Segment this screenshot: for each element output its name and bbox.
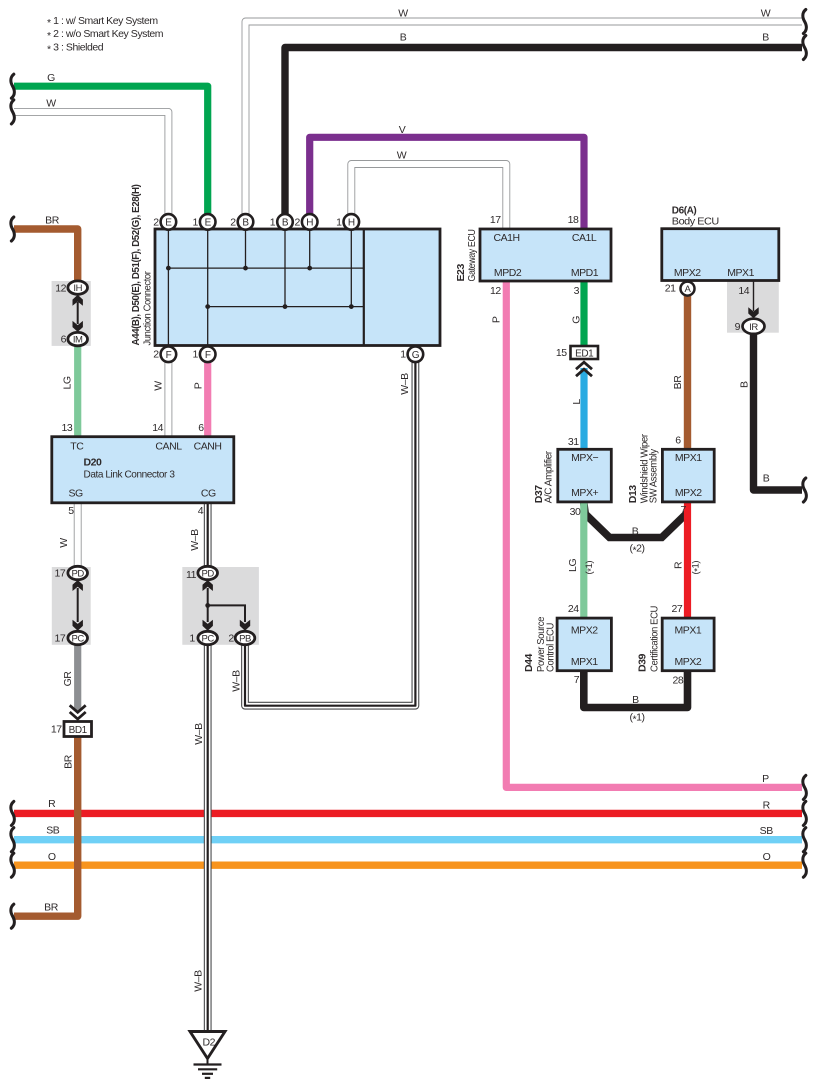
svg-text:2: 2 xyxy=(153,216,159,228)
svg-text:11: 11 xyxy=(186,569,197,581)
svg-text:B: B xyxy=(282,218,289,229)
wire W left edge to junction 2E xyxy=(14,112,168,222)
connector IR xyxy=(743,319,765,334)
svg-text:12: 12 xyxy=(490,285,501,297)
svg-text:W–B: W–B xyxy=(189,529,201,551)
svg-text:H: H xyxy=(306,218,313,229)
svg-text:1: 1 xyxy=(193,216,199,228)
svg-text:W–B: W–B xyxy=(231,670,243,692)
svg-text:TC: TC xyxy=(70,440,84,452)
wire W E23 CA1H to junction 1H xyxy=(351,164,506,229)
D39 Certification ECU box xyxy=(662,618,714,671)
squiggle left BR bottom xyxy=(11,904,14,928)
squiggle right O xyxy=(803,853,806,877)
connector PC left xyxy=(68,631,88,644)
svg-text:MPX2: MPX2 xyxy=(675,656,702,668)
svg-text:(*2): (*2) xyxy=(629,542,644,556)
connector PD left xyxy=(68,566,88,579)
pin circle 2H xyxy=(302,214,318,230)
wire R main horizontal xyxy=(14,810,802,817)
D6 pin 21 circle A xyxy=(681,282,695,296)
svg-text:B: B xyxy=(632,525,639,537)
svg-text:1: 1 xyxy=(193,349,199,361)
connector shade D6 pin14/IR xyxy=(727,281,779,333)
squiggle left SB xyxy=(11,828,14,852)
svg-text:17: 17 xyxy=(490,214,501,226)
svg-text:ED1: ED1 xyxy=(575,348,594,359)
svg-text:14: 14 xyxy=(738,285,749,297)
shield chevrons above BD1 xyxy=(70,705,86,719)
svg-text:6: 6 xyxy=(675,435,681,447)
squiggle right P xyxy=(803,775,806,799)
connector IM xyxy=(68,332,88,345)
svg-text:Certification ECU: Certification ECU xyxy=(649,606,661,672)
svg-text:4: 4 xyxy=(198,505,204,517)
svg-text:W: W xyxy=(397,150,407,162)
svg-text:D20: D20 xyxy=(84,456,103,468)
wire P from E23 MPD2 to right edge xyxy=(506,281,802,787)
squiggle left W xyxy=(11,100,14,124)
svg-text:R: R xyxy=(763,800,771,812)
svg-text:PD: PD xyxy=(72,569,85,580)
D13 Windshield Wiper SW Assembly box xyxy=(662,449,714,502)
wire LG IM to D20 TC xyxy=(74,339,81,438)
pin circle 2B xyxy=(238,214,254,230)
svg-text:H: H xyxy=(348,218,355,229)
wire W D20 SG to PD xyxy=(74,502,82,573)
svg-text:SW Assembly: SW Assembly xyxy=(648,448,660,503)
svg-text:V: V xyxy=(399,124,406,136)
wire GR PC to BD1 xyxy=(74,638,81,711)
D6(A) Body ECU box xyxy=(662,229,779,281)
svg-text:13: 13 xyxy=(62,422,73,434)
BD1 connector box xyxy=(64,722,92,737)
svg-text:MPX2: MPX2 xyxy=(674,267,701,279)
wire B top to junction 1B xyxy=(285,48,802,223)
svg-text:31: 31 xyxy=(568,436,579,448)
svg-text:MPX1: MPX1 xyxy=(571,656,598,668)
svg-text:* 1 : w/ Smart Key System: * 1 : w/ Smart Key System xyxy=(47,15,158,29)
svg-text:G: G xyxy=(412,350,420,361)
svg-text:W–B: W–B xyxy=(192,970,204,992)
svg-text:W: W xyxy=(761,8,771,20)
svg-text:B: B xyxy=(763,473,770,485)
svg-text:MPX2: MPX2 xyxy=(675,487,702,499)
wire O main horizontal xyxy=(14,862,802,869)
pin circle 1E xyxy=(200,214,216,230)
svg-text:W: W xyxy=(58,538,70,548)
connector pair shade IH/IM xyxy=(52,281,91,346)
svg-text:LG: LG xyxy=(62,376,74,389)
svg-text:LG: LG xyxy=(567,559,579,572)
D44 Power Source Control ECU box xyxy=(557,618,611,671)
svg-text:SB: SB xyxy=(46,824,60,836)
svg-text:CA1L: CA1L xyxy=(572,232,597,244)
D37 A/C Amplifier box xyxy=(558,449,612,502)
svg-text:PD: PD xyxy=(202,569,215,580)
svg-text:BR: BR xyxy=(44,901,59,913)
svg-text:28: 28 xyxy=(673,675,684,687)
ED1 connector box xyxy=(571,346,599,359)
squiggle right W xyxy=(803,10,806,34)
wire P junction 1F to D20 CANH xyxy=(204,354,211,438)
pin circle 1F xyxy=(200,347,216,363)
svg-text:Junction Connector: Junction Connector xyxy=(141,271,153,346)
svg-text:7: 7 xyxy=(681,504,687,516)
svg-text:(*1): (*1) xyxy=(629,712,644,726)
wire B black D37-30 to D13-7 xyxy=(584,503,686,538)
E23 Gateway ECU box xyxy=(480,229,611,281)
wire BR D6-21A to D13 MPX1 xyxy=(684,289,691,450)
svg-text:W: W xyxy=(153,381,165,391)
svg-text:D2: D2 xyxy=(203,1036,216,1048)
svg-text:P: P xyxy=(762,773,769,785)
svg-text:7: 7 xyxy=(574,674,580,686)
svg-text:2: 2 xyxy=(230,216,236,228)
svg-text:PC: PC xyxy=(72,634,85,645)
pin circle 2F xyxy=(161,347,177,363)
svg-text:B: B xyxy=(632,694,639,706)
svg-text:G: G xyxy=(571,316,583,324)
squiggle right R xyxy=(803,801,806,825)
svg-text:E: E xyxy=(165,218,172,229)
svg-text:W: W xyxy=(398,8,408,20)
svg-text:B: B xyxy=(762,32,769,44)
svg-text:IH: IH xyxy=(73,283,82,294)
svg-text:1: 1 xyxy=(336,216,342,228)
svg-text:B: B xyxy=(739,381,751,388)
connector PD right xyxy=(198,566,218,579)
pin circle 1B xyxy=(277,214,293,230)
svg-text:G: G xyxy=(47,72,55,84)
svg-text:R: R xyxy=(48,798,56,810)
connector PB xyxy=(235,631,255,644)
svg-text:BR: BR xyxy=(672,375,684,390)
squiggle left R xyxy=(11,801,14,825)
svg-text:MPX+: MPX+ xyxy=(571,487,598,499)
svg-text:5: 5 xyxy=(68,505,74,517)
svg-text:A/C Amplifier: A/C Amplifier xyxy=(543,450,555,503)
svg-text:27: 27 xyxy=(672,603,683,615)
svg-text:F: F xyxy=(205,350,211,361)
svg-text:IM: IM xyxy=(73,335,83,346)
svg-text:MPX1: MPX1 xyxy=(675,452,702,464)
squiggle left BR top xyxy=(11,217,14,241)
svg-text:* 3 : Shielded: * 3 : Shielded xyxy=(47,41,104,55)
svg-text:W: W xyxy=(46,98,56,110)
svg-text:F: F xyxy=(166,350,172,361)
svg-text:BR: BR xyxy=(45,215,60,227)
junction connector box A44/D50/D51/D52/E28 xyxy=(155,229,440,346)
ground D2 xyxy=(190,1032,225,1078)
svg-text:1: 1 xyxy=(270,216,276,228)
svg-text:6: 6 xyxy=(198,422,204,434)
svg-text:CANH: CANH xyxy=(194,440,222,452)
wire V E23 CA1L to junction 2H xyxy=(310,137,584,229)
svg-text:15: 15 xyxy=(556,347,567,359)
arrows between PD and PC left xyxy=(73,580,83,631)
pin circle 1G xyxy=(408,347,424,363)
arrows and branch between PD PC PB xyxy=(203,580,251,631)
svg-text:CA1H: CA1H xyxy=(493,232,519,244)
svg-text:2: 2 xyxy=(153,349,159,361)
wire G E23 MPD1 to ED1 xyxy=(580,281,587,347)
svg-text:IR: IR xyxy=(749,322,758,333)
squiggle right SB xyxy=(803,828,806,852)
wire B U-link D44-7 to D39-28 xyxy=(584,670,688,708)
svg-text:* 2 : w/o Smart Key System: * 2 : w/o Smart Key System xyxy=(47,28,164,42)
wire B IR to right edge xyxy=(754,326,803,490)
svg-text:SB: SB xyxy=(760,825,774,837)
svg-text:O: O xyxy=(48,851,56,863)
pin circle 2E xyxy=(161,214,177,230)
squiggle right B xyxy=(803,36,806,60)
svg-text:6: 6 xyxy=(61,334,67,346)
svg-text:PC: PC xyxy=(202,634,215,645)
D6 pin14 line and arrow to IR xyxy=(748,281,758,318)
svg-text:MPX1: MPX1 xyxy=(675,624,702,636)
wire BR BD1 to left edge xyxy=(14,737,78,917)
svg-text:17: 17 xyxy=(51,724,62,736)
svg-text:18: 18 xyxy=(568,214,579,226)
svg-text:O: O xyxy=(763,851,771,863)
svg-text:1: 1 xyxy=(400,349,406,361)
squiggle right B lower xyxy=(803,478,806,502)
svg-text:21: 21 xyxy=(665,283,676,295)
svg-text:3: 3 xyxy=(574,285,580,297)
svg-text:D39: D39 xyxy=(636,653,648,672)
svg-text:2: 2 xyxy=(228,633,234,645)
svg-text:R: R xyxy=(673,561,685,569)
svg-text:CANL: CANL xyxy=(155,440,182,452)
svg-text:GR: GR xyxy=(62,671,74,687)
svg-text:30: 30 xyxy=(570,506,581,518)
svg-text:D13: D13 xyxy=(627,485,639,504)
wire SB main horizontal xyxy=(14,836,802,843)
wire G left edge to junction 1E xyxy=(14,86,208,222)
svg-text:12: 12 xyxy=(55,282,66,294)
svg-text:MPX2: MPX2 xyxy=(571,624,598,636)
svg-text:Body ECU: Body ECU xyxy=(672,215,719,227)
connector IH xyxy=(68,281,88,294)
wire BR left edge to IH xyxy=(14,229,78,288)
wire W junction 2F to D20 CANL xyxy=(164,354,172,438)
svg-text:1: 1 xyxy=(189,633,195,645)
squiggle left G xyxy=(11,74,14,98)
svg-text:MPD1: MPD1 xyxy=(571,267,599,279)
svg-text:Gateway ECU: Gateway ECU xyxy=(466,230,478,282)
svg-text:E: E xyxy=(205,218,212,229)
connector pair shade PD/PC left xyxy=(52,567,91,645)
wire W-B D20 CG to PD xyxy=(204,502,212,573)
svg-text:B: B xyxy=(400,32,407,44)
svg-text:CG: CG xyxy=(201,488,216,500)
svg-text:SG: SG xyxy=(68,488,83,500)
wire W top to junction 2B xyxy=(246,22,803,223)
svg-text:MPX1: MPX1 xyxy=(727,267,754,279)
connector PC right xyxy=(198,631,218,644)
wire W-B junction 1G to PB xyxy=(245,354,415,706)
svg-text:2: 2 xyxy=(295,216,301,228)
svg-text:A44(B), D50(E), D51(F), D52(G): A44(B), D50(E), D51(F), D52(G), E28(H) xyxy=(130,185,142,346)
svg-text:BR: BR xyxy=(63,754,75,769)
svg-text:17: 17 xyxy=(55,568,66,580)
svg-text:L: L xyxy=(571,399,583,405)
svg-text:B: B xyxy=(242,218,249,229)
wire LG D37 MPX+ to D44 MPX2 xyxy=(580,502,587,618)
svg-text:MPX−: MPX− xyxy=(571,452,598,464)
svg-text:Data Link Connector 3: Data Link Connector 3 xyxy=(84,469,176,481)
wire W-B PC to ground D2 xyxy=(204,638,212,1032)
svg-text:Control ECU: Control ECU xyxy=(545,623,557,672)
svg-text:P: P xyxy=(491,316,503,323)
svg-text:BD1: BD1 xyxy=(69,725,88,736)
D20 Data Link Connector 3 box xyxy=(52,437,234,503)
wire L ED1 to D37 MPX- xyxy=(580,368,587,450)
svg-text:9: 9 xyxy=(735,321,741,333)
svg-text:17: 17 xyxy=(55,633,66,645)
svg-text:MPD2: MPD2 xyxy=(494,267,522,279)
connector pair shade PD/PC/PB right xyxy=(182,567,259,645)
arrows between IH and IM xyxy=(73,295,83,332)
squiggle left O xyxy=(11,853,14,877)
svg-text:W–B: W–B xyxy=(399,373,411,395)
pin circle 1H xyxy=(344,214,360,230)
svg-text:D44: D44 xyxy=(523,653,535,672)
svg-text:PB: PB xyxy=(239,634,251,645)
svg-text:24: 24 xyxy=(568,603,579,615)
svg-text:P: P xyxy=(193,382,205,389)
shield chevrons below ED1 xyxy=(576,362,592,376)
svg-text:W–B: W–B xyxy=(193,723,205,745)
wire R D13 MPX2 to D39 MPX1 xyxy=(684,502,691,618)
svg-text:14: 14 xyxy=(152,422,163,434)
